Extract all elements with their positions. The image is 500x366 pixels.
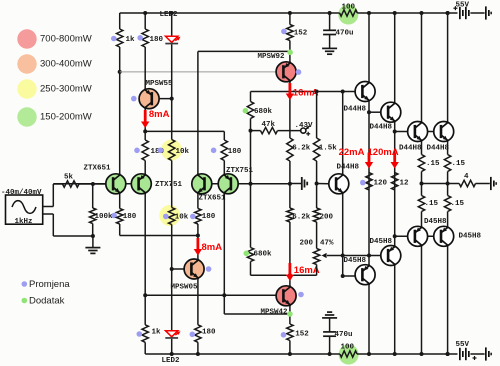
wire 180 to T4 collector	[223, 161, 225, 174]
node D45H8 no2 rail	[393, 352, 397, 356]
svg-text:47%: 47%	[320, 240, 334, 248]
ground input	[85, 247, 100, 249]
wire rail corner to 1k	[119, 13, 121, 29]
svg-text:1k: 1k	[152, 329, 162, 337]
node bias line tap	[315, 182, 319, 186]
wire output mid rail	[422, 183, 460, 185]
wire 200 to pot	[316, 222, 318, 249]
current arrow 16mA lower	[288, 263, 291, 276]
node MPSW42 base feed	[143, 293, 147, 297]
node battery bottom	[446, 352, 450, 356]
current arrow 8mA upper	[144, 110, 147, 123]
resistor R 152 top	[287, 25, 293, 41]
wire 180 to T2 collector	[144, 161, 146, 174]
resistor R 100 top (in rail)	[340, 10, 358, 16]
resistor R 180 mid-left	[142, 140, 148, 161]
resistor R 180 top	[142, 29, 148, 47]
wire .15 to mid rail	[421, 172, 423, 184]
svg-text:1kHz: 1kHz	[15, 218, 33, 226]
resistor R 1.5k	[313, 138, 319, 161]
wire 680k lower corner	[250, 262, 252, 276]
current arrow 16mA upper	[288, 83, 291, 95]
resistor R 6.2k upper	[287, 138, 293, 161]
wire rail to D44H8 no2	[394, 13, 396, 102]
node ground tap	[288, 182, 292, 186]
capacitor C 470u bottom	[329, 318, 331, 332]
svg-text:470u: 470u	[335, 331, 353, 339]
change dot 10k lower	[163, 214, 169, 220]
wire second pair bases	[205, 183, 290, 185]
svg-text:150-200mW: 150-200mW	[40, 112, 92, 123]
svg-text:1.5k: 1.5k	[319, 145, 338, 153]
wire 680k to 47k node	[250, 119, 252, 131]
wire source bottom lead	[43, 213, 54, 215]
wire top supply rail +55V	[120, 12, 340, 14]
wire predriver collector up	[342, 92, 344, 174]
connector top right	[485, 6, 487, 19]
node D45H8 no3 rail	[420, 352, 424, 356]
connector bottom right	[485, 347, 487, 360]
legend power circle 300-400mW	[17, 54, 36, 73]
change dot MPSW05	[206, 266, 212, 272]
wire source top lead	[43, 206, 54, 208]
addition dot MPSW92 emitter	[287, 50, 293, 56]
transistor Q ZTX751 input right	[131, 174, 151, 194]
wire 10k lower to MPSW05 base node	[171, 225, 173, 270]
svg-text:12: 12	[400, 180, 410, 188]
wire node to MPSW05	[197, 236, 199, 259]
current arrow 8mA lower	[196, 238, 199, 250]
wire T1 base	[93, 183, 106, 185]
svg-text:-40m/40mV: -40m/40mV	[1, 189, 42, 197]
node rail D44H8 no1	[367, 11, 371, 15]
addition dot 680k lower	[244, 251, 250, 257]
wire node to 1k bottom	[144, 295, 146, 325]
node 180 bottom rail	[196, 352, 200, 356]
node rail D44H8 no3	[420, 11, 424, 15]
change dot 180 mid-left	[134, 148, 140, 154]
change dot MPSW42	[298, 292, 304, 298]
svg-text:1k: 1k	[126, 36, 136, 44]
wire D45H8 no2 emitter to rail	[394, 266, 396, 355]
svg-text:5k: 5k	[64, 173, 74, 181]
node wiper cross	[341, 254, 345, 258]
svg-text:680k: 680k	[254, 251, 273, 259]
wire 47k to test point	[278, 130, 301, 132]
svg-text:55V: 55V	[456, 2, 470, 10]
node D45H8 no1 base	[341, 274, 345, 278]
wire 1.5k to 200	[316, 161, 318, 208]
resistor R .15 lower-right	[444, 196, 450, 212]
node wiper cross 2	[367, 254, 371, 258]
node D44H8 no1 base tap	[341, 90, 345, 94]
wire MPSW55 emitter to node	[144, 108, 146, 131]
transistor Q ZTX651 input left	[106, 174, 126, 194]
transistor Q D44H8 no4	[434, 122, 454, 142]
svg-text:180: 180	[150, 36, 164, 44]
wire 6.2k to ground node	[289, 161, 291, 208]
change dot 1k bottom	[137, 331, 143, 337]
svg-text:.15: .15	[452, 160, 466, 168]
svg-text:680k: 680k	[254, 108, 273, 116]
wire node to LED2 bottom	[171, 269, 173, 331]
transistor Q MPSW42	[276, 286, 296, 306]
resistor R 120	[366, 173, 372, 191]
wire node to VAS tap	[250, 131, 252, 184]
legend power circle 250-300mW	[17, 79, 36, 98]
transistor Q D45H8 no2	[381, 246, 401, 266]
wire 100k to ground wire	[92, 224, 94, 237]
node bias col top	[315, 90, 319, 94]
wire 47k left	[251, 130, 261, 132]
resistor R 10k upper	[169, 140, 175, 161]
wire MPSW42 emitter down	[289, 306, 291, 324]
svg-text:120mA: 120mA	[368, 147, 399, 158]
signal source box -40m/40mV 1kHz	[6, 195, 43, 224]
output jack	[490, 177, 492, 190]
transistor Q D44H8 predriver	[329, 174, 349, 194]
svg-text:700-800mW: 700-800mW	[40, 34, 92, 45]
svg-text:MPSW55: MPSW55	[146, 80, 174, 88]
resistor R 180 T1 emitter	[117, 209, 123, 225]
wire rail to 180	[144, 13, 146, 29]
change dot 152 top	[281, 29, 287, 35]
node rail 180 top	[143, 11, 147, 15]
node T4 emitter join	[222, 293, 226, 297]
wire gray bias line	[120, 71, 276, 73]
svg-text:D44H8: D44H8	[337, 164, 360, 172]
node D45H8 no1 rail	[367, 352, 371, 356]
svg-text:180: 180	[228, 148, 242, 156]
node outputs base tap lower	[393, 234, 397, 238]
wire to D44H8 predriver base	[317, 183, 329, 185]
svg-text:152: 152	[294, 30, 308, 38]
node MPSW55 base tap	[170, 97, 174, 101]
highlight circle green R100 top	[338, 5, 358, 25]
svg-text:8mA: 8mA	[202, 242, 223, 253]
transistor Q D44H8 no3	[408, 122, 428, 142]
change dot MPSW55	[131, 96, 137, 102]
svg-text:MPSW05: MPSW05	[171, 284, 199, 292]
wire 10k upper to 10k lower	[171, 161, 173, 208]
svg-text:.15: .15	[426, 160, 440, 168]
wire .15 to D45H8 no3	[421, 212, 423, 227]
svg-text:200: 200	[300, 240, 314, 248]
resistor R 100k	[90, 208, 96, 224]
highlight circle yellow 10k lower	[159, 205, 180, 226]
highlight circle yellow 10k upper	[161, 140, 182, 161]
resistor R 200 upper	[313, 208, 319, 222]
wire T1 emitter down	[119, 194, 121, 209]
svg-text:D44H8: D44H8	[427, 145, 450, 153]
wire predriver emitter down	[342, 194, 344, 276]
wire T4 emitter down	[223, 194, 225, 295]
svg-text:.43V: .43V	[295, 122, 314, 130]
svg-text:47k: 47k	[262, 121, 276, 129]
legend power circle 150-200mW	[17, 107, 36, 126]
wire 6.2k lower down	[289, 222, 291, 286]
resistor R 100 bottom (in rail)	[340, 351, 357, 357]
wire T3 collector corner	[197, 51, 199, 173]
battery 55V top	[459, 7, 461, 19]
wire D44H8 no3 emitter to .15	[421, 142, 423, 155]
wire driver no2 base	[369, 111, 381, 113]
resistor R 1k top	[117, 29, 123, 47]
svg-text:100k: 100k	[95, 213, 114, 221]
svg-text:152: 152	[295, 330, 309, 338]
svg-text:16mA: 16mA	[293, 88, 319, 99]
svg-text:120: 120	[374, 180, 388, 188]
resistor R 680k lower	[247, 248, 253, 262]
wire MPSW05 base	[172, 268, 185, 270]
transistor Q MPSW92	[276, 62, 296, 82]
wire 180 to MPSW55	[144, 47, 146, 89]
resistor R 680k upper	[247, 102, 253, 119]
current arrow 22mA	[368, 153, 371, 164]
ground cap top	[322, 47, 337, 49]
wire .15 to mid rail r	[447, 172, 449, 184]
wire mid rail to .15 lower	[421, 184, 423, 196]
transistor Q D45H8 no3	[408, 226, 428, 246]
node rail 152	[288, 11, 292, 15]
wire rail to 152 top	[289, 13, 291, 25]
node input ground	[91, 234, 95, 238]
wire T2 emitter down	[144, 194, 146, 295]
wire VAS tap down to 680k lower	[250, 184, 252, 248]
battery 55V bottom	[459, 348, 461, 360]
node rail D44H8 no4	[446, 11, 450, 15]
legend dot Promjena	[22, 281, 28, 287]
wire 100k to base node	[92, 184, 94, 208]
node 152 rail	[288, 352, 292, 356]
wire D45H8 no1 base	[343, 275, 356, 277]
transistor Q D45H8 no4	[434, 226, 454, 246]
node rail D44H8 no2	[393, 11, 397, 15]
node bias tap	[118, 70, 122, 74]
change dot MPSW92	[296, 69, 302, 75]
addition dot 680k upper	[243, 108, 249, 114]
svg-text:D45H8: D45H8	[370, 238, 393, 246]
resistor R 152 bottom	[287, 324, 293, 341]
addition dot MPSW42 emitter	[287, 311, 293, 317]
transistor Q MPSW55	[139, 89, 159, 109]
change dot 120	[360, 180, 366, 186]
svg-text:D44H8: D44H8	[370, 124, 393, 132]
svg-text:MPSW42: MPSW42	[261, 309, 289, 317]
wire output bases lower	[395, 235, 441, 237]
diode LED2 top	[166, 36, 178, 42]
node MPSW55 8mA	[143, 129, 147, 133]
svg-text:200: 200	[320, 213, 334, 221]
wire T4 emitter L	[223, 295, 225, 314]
change dot 180 bottom	[190, 332, 196, 338]
svg-text:470u: 470u	[336, 29, 354, 37]
wire rail to D44H8 no4	[447, 13, 449, 122]
svg-text:55V: 55V	[456, 341, 470, 349]
transistor Q MPSW05	[184, 259, 204, 279]
wire rail to D44H8 no1	[368, 13, 370, 81]
wire mid rail to .15 lower r	[447, 184, 449, 196]
legend dot Dodatak	[22, 298, 28, 304]
svg-text:6.2k: 6.2k	[292, 213, 311, 221]
wire node to 180	[144, 131, 146, 140]
svg-text:ZTX751: ZTX751	[155, 181, 183, 189]
wire 1k to T1 collector	[119, 47, 121, 174]
diode LED2 bottom	[166, 331, 178, 337]
change dot 180 mid-mid	[190, 214, 196, 220]
transistor Q D44H8 no2	[381, 102, 401, 122]
svg-text:D45H8: D45H8	[344, 257, 367, 265]
current arrow 120mA	[393, 153, 396, 164]
node driver base tap	[367, 110, 371, 114]
node W end	[196, 234, 200, 238]
svg-text:180: 180	[123, 213, 137, 221]
svg-text:10k: 10k	[176, 148, 190, 156]
svg-text:LED2: LED2	[160, 11, 179, 19]
resistor R 180 bottom	[195, 325, 201, 343]
wire .15 to D45H8 no4	[447, 212, 449, 227]
wire D44H8 no1 emitter down	[368, 102, 370, 265]
node rail cap bottom	[328, 352, 332, 356]
svg-text:D44H8: D44H8	[399, 145, 422, 153]
wire 152 bottom to rail	[289, 341, 291, 355]
wire T2T4 collector link	[145, 130, 224, 132]
node 47k	[249, 129, 253, 133]
resistor R 4 output	[459, 180, 475, 186]
wire MPSW55 base	[152, 98, 172, 100]
node VAS tap	[249, 182, 253, 186]
svg-text:D45H8: D45H8	[424, 218, 447, 226]
wire MPSW92 collector down	[289, 82, 291, 138]
wire MPSW05 emitter down	[197, 279, 199, 325]
wire 5k input	[53, 183, 62, 185]
wire LED2 to 10k upper	[171, 44, 173, 139]
ground mid (sideways)	[290, 183, 301, 185]
node D45H8 no4 rail	[446, 352, 450, 356]
svg-text:.15: .15	[451, 200, 465, 208]
resistor R .15 upper-left	[418, 155, 424, 172]
svg-text:MPSW92: MPSW92	[258, 53, 286, 61]
svg-text:22mA: 22mA	[339, 147, 365, 158]
svg-text:4: 4	[464, 173, 469, 181]
node LED2 rail	[170, 352, 174, 356]
wire D45H8 no3 emitter to rail	[421, 246, 423, 354]
node rail LED2	[170, 11, 174, 15]
svg-text:100: 100	[341, 344, 355, 352]
resistor R 5k	[63, 181, 80, 187]
svg-text:ZTX651: ZTX651	[199, 195, 227, 203]
resistor R .15 upper-right	[444, 155, 450, 172]
node MPSW05 base	[170, 267, 174, 271]
node mid rail left	[420, 182, 424, 186]
svg-text:D44H8: D44H8	[344, 106, 367, 114]
svg-text:Promjena: Promjena	[29, 279, 70, 290]
wire bottom supply rail -55V	[145, 353, 340, 355]
highlight circle green R100 bottom	[339, 345, 359, 365]
ground cap bottom (inverted)	[322, 317, 337, 319]
node mid rail right	[446, 182, 450, 186]
wire D44H8 no1 base	[317, 91, 356, 93]
svg-text:10k: 10k	[175, 213, 189, 221]
node T1 base	[91, 182, 95, 186]
svg-text:180: 180	[202, 329, 216, 337]
change dot 1k top	[111, 36, 117, 42]
change dot 152 bottom	[281, 332, 287, 338]
svg-text:Dodatak: Dodatak	[29, 296, 65, 307]
wire D44H8 no4 emitter to .15	[447, 142, 449, 155]
capacitor C 470u top	[329, 13, 331, 30]
change dot 100k	[111, 213, 117, 219]
wire MPSW42 base line	[145, 294, 276, 296]
node outputs base tap upper	[393, 130, 397, 134]
node battery top	[446, 11, 450, 15]
potentiometer 200 47%	[313, 249, 319, 265]
wire T3 emitter to 180	[197, 194, 199, 209]
transistor Q D45H8 no1	[355, 265, 375, 285]
wire D44H8 no2 emitter down	[394, 122, 396, 246]
svg-text:ZTX651: ZTX651	[84, 165, 112, 173]
resistor R 180 mid-right	[221, 140, 227, 161]
wire 152 to MPSW92	[289, 41, 291, 62]
test point .43V	[301, 128, 306, 133]
svg-text:.15: .15	[425, 200, 439, 208]
svg-text:300-400mW: 300-400mW	[40, 59, 92, 70]
svg-text:D45H8: D45H8	[459, 233, 482, 241]
wire D45H8 no1 emitter to rail	[368, 285, 370, 355]
legend power circle 700-800mW	[17, 29, 36, 48]
transistor Q D44H8 no1	[355, 82, 375, 102]
transistor Q ZTX651 second left	[192, 174, 212, 194]
resistor R 1k bottom	[142, 325, 148, 343]
pot wiper arrow	[327, 255, 381, 257]
resistor R 12	[392, 173, 398, 191]
svg-text:LED2: LED2	[162, 357, 181, 365]
wire D45H8 no4 emitter to rail	[447, 246, 449, 354]
wire 180 bottom to rail	[197, 342, 199, 354]
wire T1 emitter 180 to W	[119, 224, 121, 236]
svg-text:ZTX751: ZTX751	[226, 167, 254, 175]
wire bias col top	[316, 92, 318, 139]
wire input pair bases	[53, 183, 144, 185]
change dot 10k upper	[158, 148, 164, 154]
wire LED2 bottom to rail	[171, 339, 173, 354]
wire 180 to node W	[197, 224, 199, 236]
wire 1k to bottom rail	[144, 342, 146, 354]
wire rail to LED2 top	[171, 13, 173, 36]
svg-text:100: 100	[342, 4, 356, 12]
resistor R 6.2k lower	[287, 208, 293, 222]
wire rail to D44H8 no3	[421, 13, 423, 122]
resistor R 180 mid-mid	[195, 209, 201, 225]
change dot 180 mid-right	[211, 148, 217, 154]
node rail cap top	[328, 11, 332, 15]
resistor R 47k	[261, 127, 278, 133]
svg-text:6.2k: 6.2k	[292, 145, 311, 153]
change dot 180 top	[137, 35, 143, 41]
transistor Q ZTX751 second right	[218, 174, 238, 194]
node 680k lower join	[288, 273, 292, 277]
wire output bases upper	[395, 131, 441, 133]
resistor R 10k lower	[169, 208, 175, 225]
svg-text:180: 180	[202, 213, 216, 221]
svg-text:250-300mW: 250-300mW	[40, 84, 92, 95]
wire 680k upper top corner	[250, 92, 252, 102]
resistor R .15 lower-left	[418, 196, 424, 212]
svg-text:8mA: 8mA	[149, 109, 170, 120]
